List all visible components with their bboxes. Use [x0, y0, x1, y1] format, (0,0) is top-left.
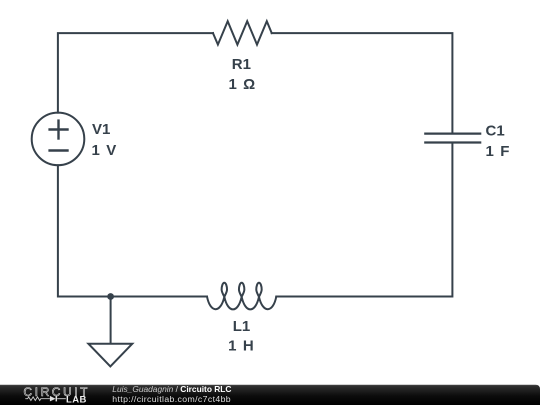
voltage source V1 circle — [32, 113, 85, 166]
svg-text:R1: R1 — [232, 56, 251, 73]
svg-text:V1: V1 — [92, 121, 110, 138]
svg-text:Luis_Guadagnin / Circuito RLC: Luis_Guadagnin / Circuito RLC — [112, 384, 231, 394]
svg-text:LAB: LAB — [66, 395, 87, 405]
resistor R1 — [213, 21, 272, 44]
wire: resistor to top-right corner down to capacitor — [272, 33, 453, 133]
voltage source plus / minus — [50, 121, 68, 151]
node junction dot — [107, 293, 114, 300]
wire: inductor to bottom-left corner up to source — [58, 165, 207, 296]
svg-text:1 V: 1 V — [92, 142, 118, 159]
logo diode — [50, 396, 56, 402]
wire: ground stem — [110, 297, 112, 344]
logo resistor zigzag and lead — [25, 397, 50, 401]
svg-text:L1: L1 — [233, 318, 251, 335]
wire: left-top from source to top-left corner to resistor — [58, 33, 213, 113]
ground symbol — [88, 344, 132, 367]
svg-text:1 Ω: 1 Ω — [228, 76, 256, 93]
inductor L1 — [207, 283, 276, 310]
svg-text:1 H: 1 H — [228, 337, 255, 354]
wire: capacitor to bottom-right corner to inductor — [276, 144, 452, 297]
svg-text:http://circuitlab.com/c7ct4bb: http://circuitlab.com/c7ct4bb — [112, 394, 231, 404]
svg-text:C1: C1 — [486, 122, 505, 139]
capacitor C1 plates — [425, 134, 480, 143]
svg-text:1 F: 1 F — [486, 143, 511, 160]
